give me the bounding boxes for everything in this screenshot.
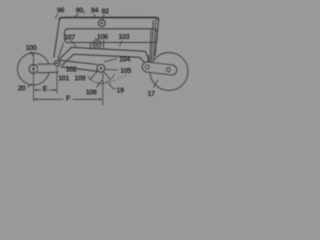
- axle link bottom edge: [38, 71, 59, 74]
- lower rail left end inner: [62, 54, 74, 65]
- strut below rail left: [58, 43, 64, 59]
- frame right inner line b: [151, 20, 153, 60]
- crank arm left line: [90, 72, 98, 80]
- crank arm right line: [104, 72, 110, 79]
- right wheel 17 outline: [150, 53, 188, 91]
- lower rail bottom edge: [74, 54, 140, 57]
- outer frame top member 90: [59, 18, 158, 21]
- front pivot 101 dot: [56, 62, 58, 64]
- leader 106: [95, 38, 98, 41]
- leader 94: [94, 14, 95, 17]
- film grain overlay: [0, 0, 200, 113]
- right link fork line b: [150, 56, 153, 63]
- axle link top edge: [38, 63, 56, 65]
- left wheel 20 outline: [18, 53, 50, 85]
- frame right inner line a: [154, 19, 156, 60]
- leader 100: [31, 52, 34, 56]
- outer frame left edge: [54, 21, 60, 58]
- leader 107: [71, 40, 77, 47]
- right link hole right: [166, 68, 170, 72]
- leader 96: [55, 14, 58, 19]
- leader 108: [97, 80, 103, 88]
- extension line front pivot: [56, 67, 58, 94]
- pivot 106 inner ring: [95, 42, 99, 46]
- right link fork line a: [148, 56, 149, 63]
- dash before 19: [113, 88, 116, 90]
- leader 17: [154, 80, 159, 88]
- lower rail left end outer: [58, 47, 72, 60]
- frame right inner line c: [150, 30, 151, 59]
- left wheel vertical center line: [33, 52, 35, 101]
- leader 19: [109, 83, 114, 88]
- leader 90: [74, 14, 80, 17]
- F arrow left: [34, 98, 37, 100]
- leader 103: [120, 41, 123, 47]
- E arrow left: [34, 89, 37, 91]
- bolt 92 circle: [98, 20, 105, 27]
- leader 104: [105, 59, 118, 62]
- bracket plate left edge: [89, 43, 91, 50]
- E dimension line left part: [35, 89, 42, 91]
- leader 20: [28, 84, 33, 87]
- link 102 top edge: [60, 60, 98, 64]
- bracket plate right edge: [103, 40, 105, 49]
- leader 105: [105, 68, 118, 71]
- lower rail right end outer: [146, 51, 151, 62]
- lower rail top edge: [72, 47, 146, 51]
- left wheel hub center dot: [32, 68, 34, 70]
- F dimension line left part: [35, 98, 64, 100]
- bolt 92 dot: [101, 22, 103, 24]
- F arrow right: [99, 98, 102, 100]
- lower rail right end inner: [140, 57, 146, 63]
- pivot 106 dot: [96, 43, 98, 45]
- left wheel hub: [29, 65, 38, 74]
- E arrow right: [54, 89, 57, 91]
- main pivot 105 dot: [100, 67, 102, 69]
- right link hole left: [145, 65, 149, 69]
- front pivot 101 circle: [55, 61, 61, 67]
- leader 92: [103, 14, 105, 19]
- swing solid arc around pivot: [88, 74, 115, 83]
- swing dashed arc 19: [106, 74, 129, 84]
- outer frame right edge: [155, 21, 159, 57]
- right link capsule: [142, 62, 177, 75]
- axle link bar fill (hides wheel arc): [38, 65, 57, 73]
- link 102 bottom edge: [61, 67, 98, 72]
- main pivot 105 circle: [97, 64, 105, 72]
- inner rail 94 rounded bar: [65, 29, 158, 43]
- paper background: [0, 0, 200, 113]
- F dimension line right part: [73, 98, 102, 100]
- E dimension line right part: [49, 89, 57, 91]
- pivot 106 outer ring: [93, 40, 101, 48]
- extension line through pivot: [102, 73, 104, 105]
